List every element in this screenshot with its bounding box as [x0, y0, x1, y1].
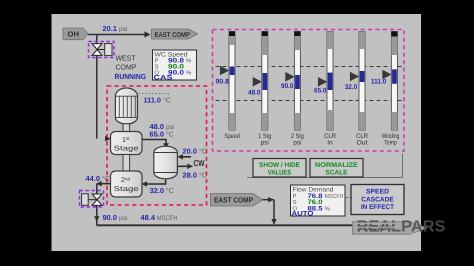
svg-text:psi: psi — [119, 26, 128, 33]
WC Speed faceplate box — [153, 50, 197, 82]
svg-text:MSCFH: MSCFH — [325, 193, 344, 200]
svg-text:S: S — [293, 199, 297, 206]
gray HMI panel background — [52, 14, 422, 251]
EAST COMP banner (top) — [152, 29, 198, 39]
svg-text:28.0: 28.0 — [183, 170, 198, 179]
label 20.1 psi — [103, 24, 129, 33]
motor M1 (drive) — [115, 88, 137, 124]
wire: 1st stage to cooler — [142, 140, 166, 147]
2nd stage compressor — [111, 171, 143, 197]
svg-text:MSCFH: MSCFH — [157, 215, 178, 222]
motor neck — [123, 124, 130, 132]
OH banner — [63, 28, 88, 40]
svg-text:90.0: 90.0 — [281, 83, 294, 90]
CW inlet arrow — [177, 154, 191, 159]
svg-text:32.0: 32.0 — [345, 84, 358, 91]
svg-text:48.0: 48.0 — [248, 90, 261, 97]
slider bar 2: 1 Stg psi — [248, 32, 272, 147]
slider bar 5: CLR Out — [345, 32, 369, 147]
svg-text:20.0: 20.0 — [183, 146, 198, 155]
west compressor dashed red group box — [107, 86, 207, 205]
svg-text:RUNNING: RUNNING — [115, 72, 147, 81]
wire: drop from pipe to valve V1 — [96, 35, 98, 44]
label 28.0 C (CW return) — [183, 170, 207, 179]
svg-text:SHOW / HIDE: SHOW / HIDE — [259, 162, 300, 169]
labels 48.0 psi / 65.0 C — [150, 122, 176, 138]
valve V1 (west comp suction) — [89, 42, 115, 58]
svg-text:Speed: Speed — [224, 133, 240, 140]
svg-text:%: % — [325, 205, 331, 212]
svg-text:°C: °C — [102, 176, 110, 183]
arrowhead into 1st stage — [105, 136, 111, 141]
svg-text:P: P — [155, 57, 159, 64]
arrowhead down on discharge pipe — [94, 216, 99, 222]
button group frame 3D edge — [247, 154, 403, 178]
svg-text:°C: °C — [166, 188, 174, 195]
SPEED CASCADE IN EFFECT button — [351, 185, 404, 215]
svg-text:Temp: Temp — [384, 139, 397, 146]
svg-text:CAS: CAS — [154, 75, 174, 82]
svg-text:111.0: 111.0 — [371, 78, 387, 85]
Flow Demand faceplate box — [291, 185, 346, 217]
svg-text:%: % — [186, 57, 192, 64]
svg-text:48.4: 48.4 — [141, 213, 156, 222]
svg-text:psi: psi — [261, 139, 269, 146]
svg-text:°C: °C — [199, 172, 207, 179]
lower reference dashed line — [216, 100, 402, 102]
label 32.0 C — [150, 186, 174, 195]
svg-text:°C: °C — [166, 131, 174, 138]
svg-text:COMP: COMP — [116, 63, 137, 72]
arrowhead into cooler top — [163, 143, 169, 149]
svg-text:IN EFFECT: IN EFFECT — [361, 204, 395, 211]
dotted leader to winding temp — [139, 94, 169, 97]
svg-text:REALPARS: REALPARS — [357, 218, 446, 236]
svg-text:SPEED: SPEED — [366, 188, 389, 195]
svg-text:Stage: Stage — [114, 146, 139, 153]
svg-text:WEST: WEST — [116, 54, 137, 63]
svg-text:CW: CW — [194, 158, 206, 168]
svg-text:44.0: 44.0 — [86, 174, 101, 183]
intercooler E1 — [154, 146, 178, 179]
1st stage compressor — [111, 132, 143, 155]
trend panel dashed magenta box — [213, 30, 405, 152]
svg-text:AUTO: AUTO — [292, 210, 314, 217]
wire: 2nd stage discharge left — [97, 183, 111, 185]
svg-text:65.0: 65.0 — [150, 129, 165, 138]
labels 90.0 psi / 48.4 MSCFH — [103, 213, 178, 222]
wire: valve V1 down to 1st stage — [96, 55, 98, 138]
svg-text:psi: psi — [293, 139, 301, 146]
svg-text:EAST COMP: EAST COMP — [155, 32, 191, 39]
upper reference dashed line — [216, 66, 402, 68]
svg-text:Stage: Stage — [114, 186, 139, 193]
RECOVERY banner — [353, 222, 428, 234]
wire: bottom header pipe — [97, 224, 353, 226]
svg-text:32.0: 32.0 — [150, 186, 165, 195]
arrowhead into EAST COMP — [145, 31, 151, 37]
svg-text:psi: psi — [166, 124, 175, 131]
interstage neck — [123, 155, 130, 172]
svg-text:Out: Out — [357, 139, 368, 146]
svg-text:EAST COMP: EAST COMP — [214, 195, 253, 204]
slider bar 1: Speed — [216, 32, 241, 140]
svg-text:CASCADE: CASCADE — [361, 196, 394, 203]
svg-text:90.0: 90.0 — [103, 213, 118, 222]
label 44.0 C — [86, 174, 110, 183]
WEST COMP RUNNING text — [115, 54, 147, 81]
svg-text:S: S — [155, 63, 159, 70]
dotted connector flow demand to speed cascade — [346, 197, 351, 199]
svg-text:psi: psi — [119, 215, 128, 222]
svg-text:20.1: 20.1 — [103, 24, 118, 33]
slider bar 3: 2 Stg psi — [281, 32, 304, 147]
label 20.0 C (CW supply) — [183, 146, 207, 155]
label 111.0 C (winding temp) — [144, 95, 171, 104]
svg-text:OH: OH — [68, 30, 80, 39]
valve V2 (discharge valve) — [80, 191, 104, 208]
svg-text:NORMALIZE: NORMALIZE — [315, 162, 358, 169]
slider bar 6: Winding Temp — [371, 32, 400, 147]
svg-text:°C: °C — [163, 97, 171, 104]
svg-text:VALUES: VALUES — [268, 170, 292, 177]
svg-text:SCALE: SCALE — [326, 170, 348, 177]
svg-text:P: P — [293, 193, 297, 200]
SHOW / HIDE VALUES button — [253, 159, 306, 178]
slider bar 4: CLR In — [314, 32, 336, 147]
EAST COMP banner (bottom) — [211, 194, 263, 207]
svg-text:°C: °C — [199, 148, 207, 155]
svg-text:%: % — [186, 69, 192, 76]
svg-text:90.8: 90.8 — [216, 78, 230, 85]
svg-text:In: In — [327, 139, 333, 146]
CW outlet arrow — [177, 164, 193, 169]
svg-text:65.0: 65.0 — [314, 88, 327, 95]
wire: east comp tie-in — [263, 199, 275, 201]
arrowhead at discharge corner — [96, 181, 102, 186]
svg-text:111.0: 111.0 — [144, 95, 162, 104]
REALPARS watermark logo — [356, 218, 446, 236]
arrowhead into 2nd stage — [142, 181, 147, 186]
NORMALIZE SCALE button — [310, 159, 363, 178]
wire: OH to EAST COMP pipe — [88, 34, 146, 36]
wire: cooler to 2nd stage — [145, 180, 166, 185]
wire: down through valve V2 — [96, 184, 98, 226]
